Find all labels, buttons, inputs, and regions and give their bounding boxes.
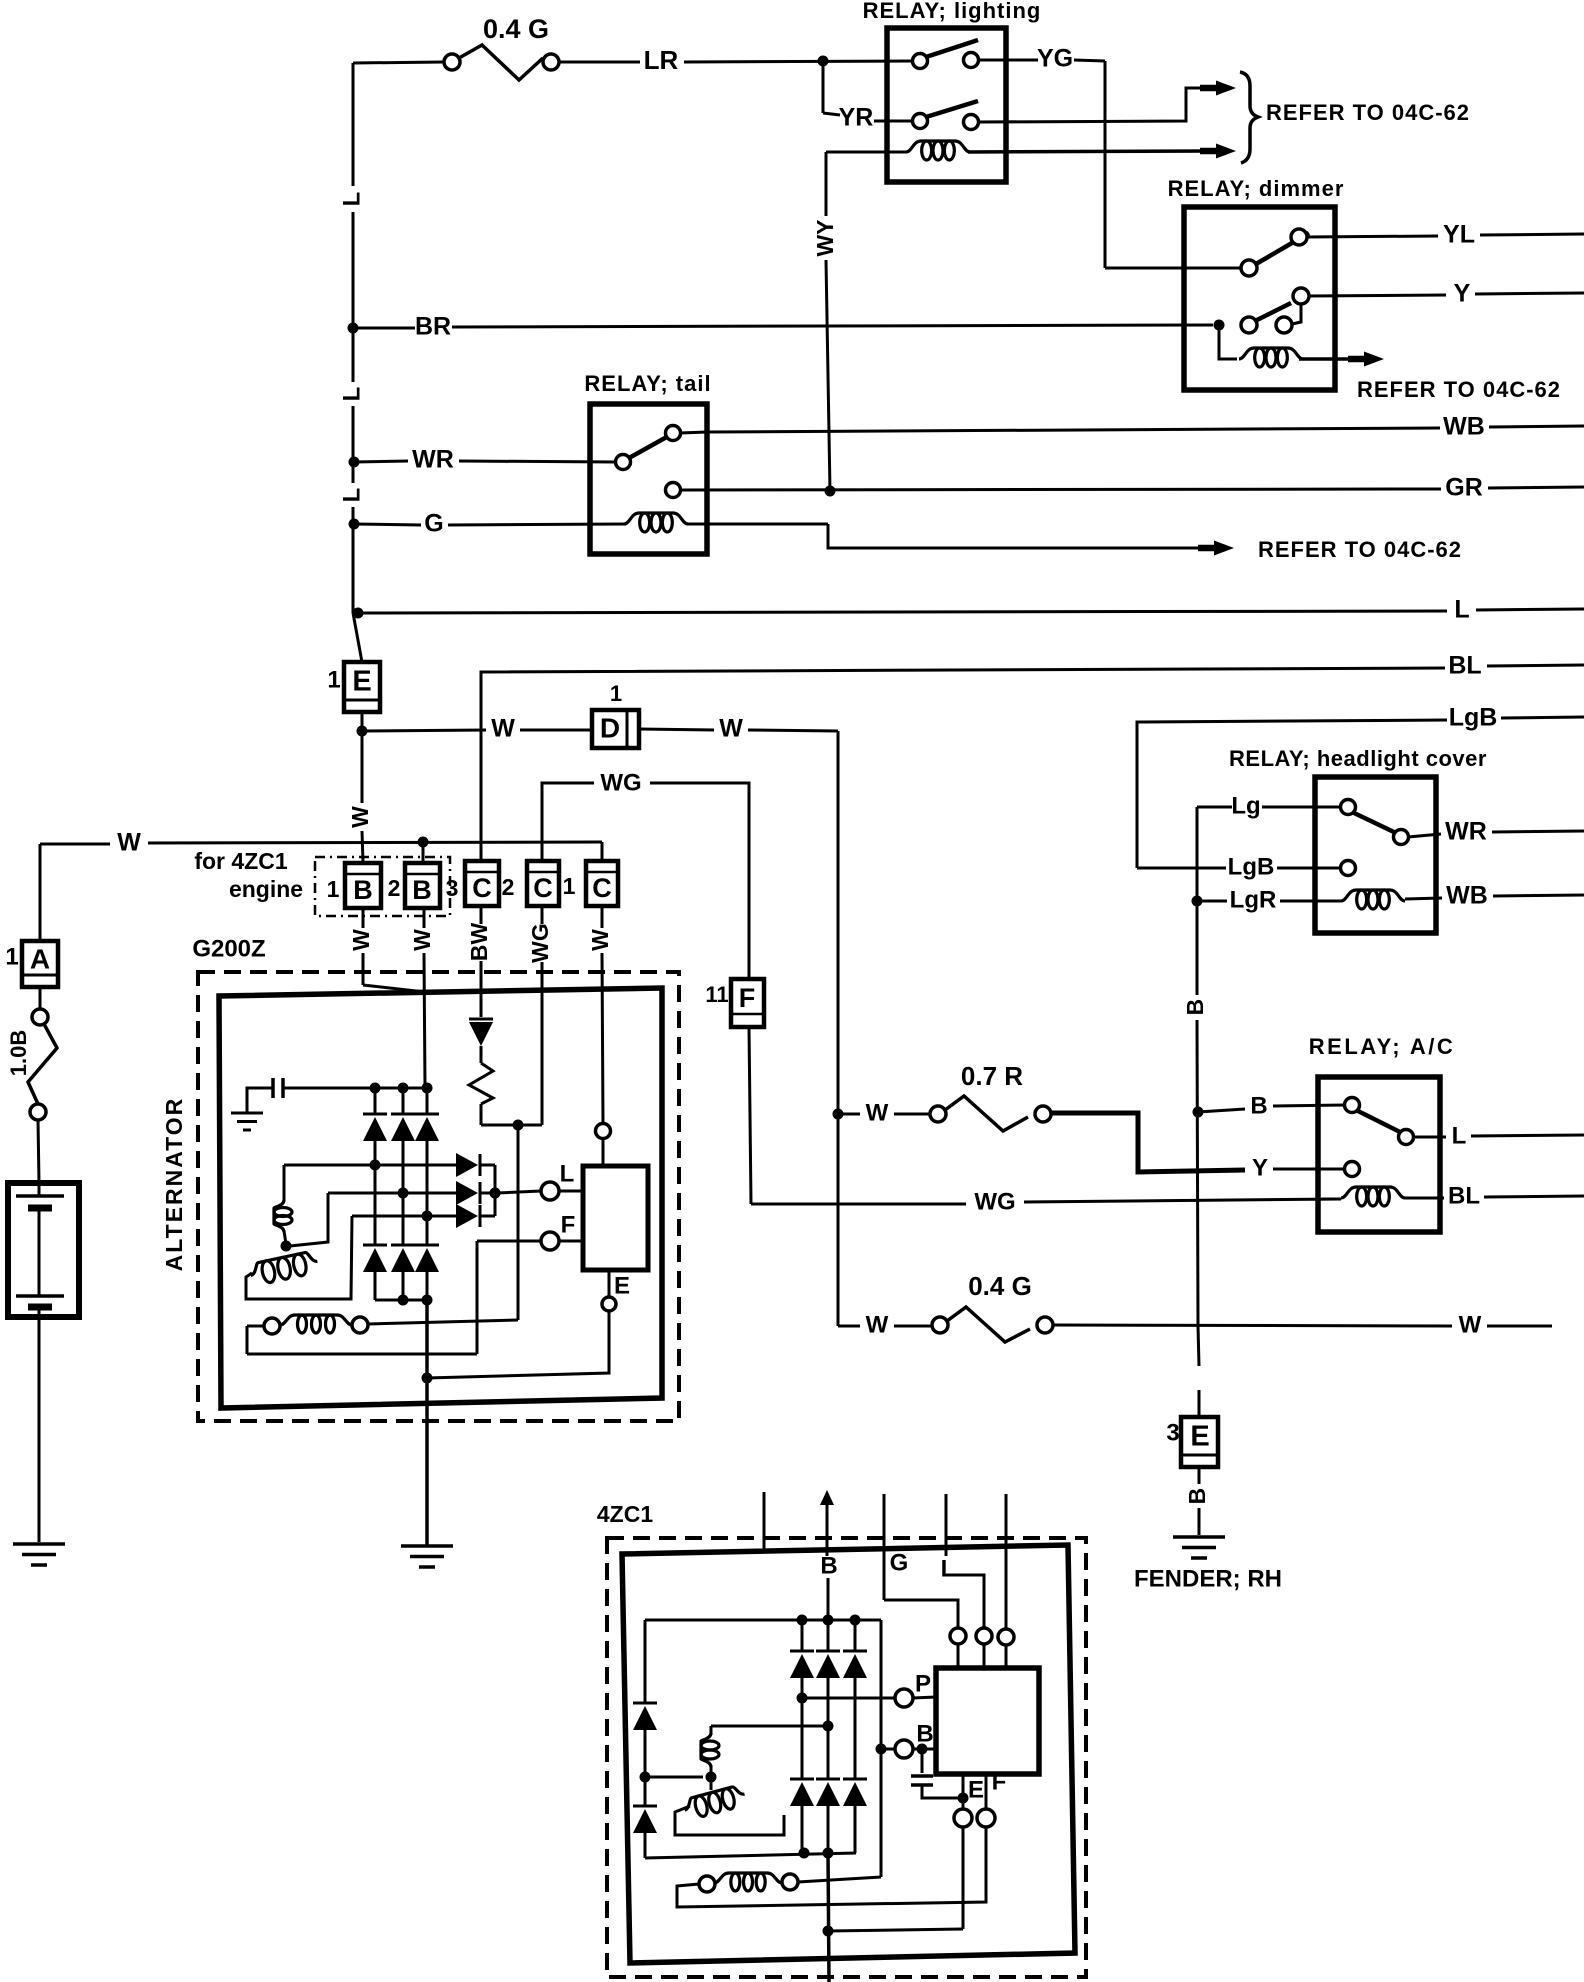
fuse D1 — [592, 710, 639, 748]
svg-text:2: 2 — [502, 874, 515, 900]
svg-text:B: B — [820, 1552, 837, 1579]
relay lighting title — [863, 0, 1042, 23]
node bottom rail 2 — [398, 1295, 433, 1306]
svg-text:F: F — [992, 1768, 1007, 1795]
relay A/C box — [1318, 1077, 1440, 1232]
svg-text:0.4 G: 0.4 G — [483, 14, 549, 44]
svg-text:RELAY; headlight cover: RELAY; headlight cover — [1229, 746, 1487, 771]
wire junction down — [517, 1125, 520, 1320]
svg-text:FENDER; RH: FENDER; RH — [1134, 1565, 1282, 1592]
wire YG — [978, 45, 1105, 268]
wire BL long — [481, 652, 1584, 861]
label 1 (fuse A) — [5, 943, 18, 970]
rotor loop (4ZC1) — [675, 1806, 784, 1835]
label REFER TO 04C-62 (dimmer) — [1357, 377, 1561, 402]
svg-text:W: W — [719, 715, 743, 743]
rectifier column 2 — [402, 1088, 405, 1300]
label 1 (fuse E) — [327, 666, 340, 693]
wire Lg — [1197, 792, 1341, 819]
rail right down (4ZC1) — [880, 1620, 883, 1877]
wire LgB long — [1137, 704, 1584, 868]
svg-text:WR: WR — [1445, 818, 1487, 846]
node GR-WY junction — [825, 486, 836, 497]
terminal E (G200Z) — [427, 1270, 630, 1378]
svg-text:LgB: LgB — [1449, 704, 1498, 732]
svg-text:BL: BL — [1448, 652, 1481, 680]
node rail 3 — [422, 1083, 433, 1094]
battery box — [8, 1183, 79, 1317]
wire label BW — [466, 923, 492, 962]
svg-text:F: F — [739, 983, 756, 1013]
wire W rail down to fuse A — [39, 844, 42, 941]
alternator center ground wire — [375, 1300, 427, 1545]
wires circles to regulator — [958, 1644, 1006, 1668]
wire label W (B1 down) — [348, 929, 374, 951]
label L (4ZC1) — [941, 1555, 956, 1582]
svg-text:E: E — [968, 1776, 984, 1803]
fuse E3 — [1181, 1417, 1218, 1467]
relay A/C switch — [1345, 1098, 1414, 1145]
wire G (4ZC1) — [884, 1494, 958, 1628]
wire below fuse E — [361, 712, 364, 731]
svg-text:WR: WR — [412, 446, 454, 474]
svg-text:L: L — [338, 488, 365, 503]
wire W (0.4G lower) — [838, 1311, 932, 1338]
wire YR — [823, 61, 913, 132]
diode bottom 3 — [415, 1245, 439, 1272]
phase row 3 — [352, 1211, 456, 1222]
connector B1 — [345, 863, 381, 908]
svg-text:L: L — [941, 1555, 956, 1582]
wire L long — [358, 596, 1584, 624]
rotor coil vertical (4ZC1) — [701, 1726, 719, 1777]
svg-text:Y: Y — [1252, 1154, 1268, 1181]
battery cell bottom — [16, 1296, 64, 1307]
diode right 2 — [456, 1181, 480, 1205]
svg-text:W: W — [117, 829, 141, 857]
terminal circle (Cc) — [596, 1124, 611, 1139]
svg-text:REFER TO 04C-62: REFER TO 04C-62 — [1357, 377, 1561, 402]
diode resistor branch — [469, 1019, 518, 1125]
fusible link 0.4 G (lower) — [932, 1307, 1053, 1342]
node W junction (0.7R) — [833, 1109, 844, 1120]
diode bottom 2 — [391, 1245, 415, 1272]
brace refer top — [1240, 72, 1258, 163]
connector C1b — [527, 861, 559, 906]
label 1 (B1) — [327, 876, 340, 902]
label 4ZC1 — [597, 1501, 653, 1527]
stator coil (4ZC1) — [699, 1873, 881, 1892]
node E junction (G200Z) — [422, 1373, 433, 1384]
wire E to B1 connector — [362, 731, 363, 863]
svg-text:C: C — [533, 873, 553, 903]
label REFER TO 04C-62 (tail) — [1258, 537, 1462, 562]
svg-text:L: L — [1452, 1122, 1467, 1149]
svg-text:BR: BR — [415, 313, 451, 341]
svg-text:GR: GR — [1445, 474, 1483, 502]
capacitor (4ZC1) — [911, 1749, 969, 1804]
svg-text:1: 1 — [327, 876, 340, 902]
svg-text:RELAY; lighting: RELAY; lighting — [863, 0, 1042, 23]
svg-text:1: 1 — [610, 681, 622, 706]
rotor wire lower — [246, 1216, 352, 1299]
svg-text:1: 1 — [563, 873, 576, 899]
svg-text:11: 11 — [705, 982, 728, 1007]
alternator G200Z dashed box — [198, 972, 679, 1421]
label 11 (connector F) — [705, 982, 728, 1007]
node B junction (A/C) — [1193, 1107, 1204, 1118]
wire label WG (lead) — [527, 923, 553, 963]
wire Ca lead down — [480, 906, 483, 1017]
dashed box 4ZC1 connectors — [315, 857, 450, 916]
relay headlight switch — [1341, 800, 1409, 845]
relay headlight contact LgB — [1341, 861, 1356, 876]
node rail 2 — [398, 1083, 409, 1094]
wire label W (B2 down) — [409, 929, 435, 951]
wire Y thick — [1051, 1113, 1345, 1181]
svg-text:3: 3 — [446, 875, 459, 901]
relay dimmer coil — [1219, 325, 1384, 367]
wire W vertical to 0.4G — [837, 1114, 840, 1326]
wire GR — [680, 474, 1584, 502]
ground battery — [13, 1544, 65, 1565]
svg-text:YL: YL — [1443, 221, 1475, 249]
node BR-dimmer junction — [1214, 320, 1225, 331]
svg-text:LR: LR — [644, 45, 679, 75]
svg-text:B: B — [353, 875, 373, 905]
wire B to A/C — [1198, 1092, 1345, 1119]
wire B2 to W rail — [422, 842, 425, 863]
wire W vertical right — [837, 731, 840, 1114]
label ALTERNATOR — [161, 1097, 187, 1272]
F wire (4ZC1) — [677, 1768, 1006, 1907]
svg-text:B: B — [1184, 1488, 1210, 1505]
node BR junction — [348, 323, 359, 334]
diode right 3 — [456, 1204, 480, 1228]
svg-text:REFER TO 04C-62: REFER TO 04C-62 — [1266, 100, 1470, 125]
wire 4th stub (4ZC1) — [1005, 1494, 1008, 1629]
alternator 4ZC1 dashed box — [607, 1538, 1086, 1977]
wire B2 lead down — [424, 908, 425, 1088]
svg-text:W: W — [409, 929, 435, 951]
relay lighting switch 2 — [913, 101, 979, 130]
wire link to battery — [38, 1120, 39, 1183]
wire label B (lower) — [1184, 1488, 1210, 1505]
wire G — [354, 510, 626, 538]
rectifier column 1 — [374, 1088, 377, 1300]
rotor coil horizontal (4ZC1) — [682, 1777, 747, 1821]
wire LgR — [1197, 886, 1341, 913]
node LgR junction — [1192, 896, 1203, 907]
label 0.4 G (top) — [483, 14, 549, 44]
label 1 (C) — [563, 873, 576, 899]
label G (4ZC1) — [890, 1549, 909, 1576]
svg-text:1.0B: 1.0B — [6, 1030, 31, 1076]
label REFER TO 04C-62 (top) — [1266, 100, 1470, 125]
wire label L (lower) — [338, 488, 365, 503]
rotor coil vertical (G200Z) — [274, 1165, 292, 1244]
svg-text:W: W — [866, 1311, 889, 1338]
wire fuse A to link — [39, 987, 42, 1009]
relay tail coil — [624, 513, 1234, 556]
phase line (4ZC1) — [711, 1721, 834, 1732]
diodes bottom (4ZC1) — [790, 1779, 867, 1806]
relay tail title — [584, 371, 711, 396]
center ground wire (4ZC1) — [823, 1853, 964, 1982]
connector B2 — [405, 863, 440, 908]
rotor coil horizontal (G200Z) — [249, 1193, 328, 1286]
svg-text:engine: engine — [229, 876, 303, 902]
svg-text:F: F — [561, 1211, 576, 1238]
svg-text:for 4ZC1: for 4ZC1 — [194, 848, 288, 874]
svg-text:ALTERNATOR: ALTERNATOR — [161, 1097, 187, 1272]
diode top 1 — [363, 1114, 387, 1141]
diodes top (4ZC1) — [790, 1651, 867, 1678]
relay dimmer switch 2 — [1241, 288, 1309, 333]
svg-text:B: B — [412, 875, 432, 905]
wire YL — [1307, 221, 1584, 249]
diode output bus — [481, 1165, 501, 1216]
svg-text:B: B — [1250, 1092, 1267, 1119]
terminal F (G200Z) — [477, 1211, 583, 1354]
svg-text:WY: WY — [812, 219, 838, 256]
E wire (4ZC1) — [954, 1774, 984, 1929]
relay lighting box — [887, 28, 1006, 182]
wire stub into 4ZC1 — [763, 1492, 766, 1551]
wire label B (upper) — [1182, 999, 1208, 1016]
wire B vertical (fender ground) — [1197, 901, 1199, 1417]
alternator 4ZC1 solid box — [622, 1545, 1075, 1963]
terminal L (G200Z) — [490, 1160, 584, 1200]
connector Cc — [586, 861, 618, 906]
label 2 (B2) — [388, 875, 401, 901]
wire W right (lower) — [1053, 1311, 1552, 1338]
wire WY vertical — [826, 152, 830, 491]
wire bend to fusible link — [353, 62, 444, 63]
diode bottom 1 — [363, 1245, 387, 1272]
wire Cb into junction — [518, 1124, 542, 1127]
relay headlight cover title — [1229, 746, 1487, 771]
node bottom left 1 — [799, 1848, 810, 1859]
wire YG into dimmer — [1105, 267, 1241, 270]
label 2 (C) — [502, 874, 515, 900]
relay A/C title — [1309, 1034, 1455, 1059]
left branch (4ZC1) — [633, 1620, 856, 1858]
terminal circle L — [976, 1628, 992, 1644]
svg-text:W: W — [1459, 1311, 1482, 1338]
svg-text:W: W — [348, 929, 374, 951]
rectifier columns (4ZC1) — [802, 1620, 855, 1853]
relay dimmer box — [1184, 207, 1335, 390]
svg-text:2: 2 — [388, 875, 401, 901]
label 0.7 R — [961, 1061, 1023, 1091]
diode right 1 — [456, 1153, 480, 1177]
diode top 2 — [391, 1114, 415, 1141]
wire L (4ZC1) — [946, 1494, 984, 1627]
rotor link (4ZC1) — [645, 1772, 717, 1783]
battery cell top — [16, 1186, 64, 1208]
wire WR — [354, 446, 616, 474]
svg-text:W: W — [347, 806, 373, 828]
terminal circle G — [950, 1628, 966, 1644]
wire W to fuse D — [362, 715, 592, 743]
svg-text:BW: BW — [466, 923, 492, 962]
wire W from fuse D — [639, 715, 838, 743]
svg-text:YR: YR — [839, 104, 874, 132]
wire F to WG low — [749, 1027, 1341, 1215]
phase row 2 — [328, 1188, 456, 1199]
svg-text:0.7 R: 0.7 R — [961, 1061, 1023, 1091]
fusible link 0.7 R — [930, 1096, 1051, 1131]
node W-B2 junction — [418, 837, 429, 848]
svg-text:WG: WG — [974, 1188, 1015, 1215]
node rail 1 — [370, 1083, 381, 1094]
diode top 3 — [415, 1114, 439, 1141]
svg-text:YG: YG — [1037, 45, 1073, 73]
wire L (A/C) — [1413, 1122, 1584, 1149]
node LR junction — [818, 56, 829, 67]
wire main vertical L (battery feed) — [353, 63, 362, 662]
wire BR — [353, 313, 1213, 341]
svg-text:A: A — [30, 943, 50, 974]
label G200Z — [192, 935, 265, 962]
relay lighting switch 1 — [913, 40, 979, 69]
connector C2a — [465, 861, 499, 906]
wire label L (middle) — [338, 387, 365, 402]
svg-text:L: L — [338, 192, 365, 207]
svg-text:C: C — [472, 873, 492, 903]
node WR junction — [349, 457, 360, 468]
svg-text:WB: WB — [1443, 413, 1485, 441]
rectifier rail (4ZC1) — [645, 1615, 881, 1626]
svg-text:WG: WG — [600, 769, 641, 796]
svg-text:E: E — [614, 1272, 630, 1299]
label 0.4 G (lower) — [968, 1271, 1032, 1301]
node G junction — [349, 519, 360, 530]
node resistor junction — [513, 1120, 524, 1131]
wire W (0.7R) — [838, 1099, 930, 1126]
svg-text:RELAY; dimmer: RELAY; dimmer — [1168, 176, 1345, 201]
svg-text:E: E — [352, 666, 371, 698]
fusible link 0.4 G (top) — [444, 45, 559, 80]
relay headlight coil — [1341, 882, 1584, 910]
label B (4ZC1) — [820, 1552, 837, 1579]
ground capacitor — [231, 1113, 263, 1130]
svg-text:B: B — [916, 1720, 933, 1747]
label 1 (fuse D) — [610, 681, 622, 706]
relay A/C contact Y — [1345, 1162, 1360, 1177]
wire label W (B1 lead) — [347, 806, 373, 828]
battery cell link — [38, 1208, 41, 1296]
wire LR — [559, 45, 913, 75]
node W junction below E — [357, 726, 368, 737]
relay A/C coil — [1322, 1182, 1584, 1209]
label 3 (fuse E3) — [1166, 1419, 1179, 1446]
relay lighting coil — [826, 141, 1236, 160]
fusible link 1.0B — [28, 1009, 57, 1120]
svg-text:E: E — [1190, 1421, 1209, 1453]
svg-text:L: L — [1454, 596, 1469, 624]
alternator G200Z solid box — [219, 988, 662, 1408]
svg-text:4ZC1: 4ZC1 — [597, 1501, 653, 1527]
relay headlight cover box — [1315, 777, 1436, 933]
svg-text:W: W — [491, 715, 515, 743]
wire Cb lead down — [541, 906, 544, 1125]
wire W rail — [40, 829, 602, 861]
svg-text:Lg: Lg — [1231, 792, 1260, 819]
svg-text:D: D — [600, 712, 620, 743]
wire battery to ground — [38, 1307, 41, 1542]
capacitor (G200Z) — [247, 1078, 373, 1112]
relay dimmer switch 1 — [1241, 229, 1309, 276]
svg-text:LgR: LgR — [1230, 886, 1277, 913]
svg-text:1: 1 — [327, 666, 340, 693]
wire WR (headlight) — [1408, 818, 1584, 846]
svg-text:RELAY; A/C: RELAY; A/C — [1309, 1034, 1455, 1059]
wire WB — [680, 413, 1584, 441]
node L-line junction — [353, 608, 364, 619]
svg-text:W: W — [866, 1099, 889, 1126]
fuse A — [22, 941, 58, 987]
relay dimmer title — [1168, 176, 1345, 201]
relay tail switch — [616, 426, 682, 470]
svg-text:P: P — [915, 1670, 931, 1697]
terminal circle 4th — [998, 1629, 1014, 1645]
wire B (4ZC1) — [820, 1490, 834, 1620]
wire WG to F connector — [542, 769, 749, 979]
svg-text:WG: WG — [527, 923, 553, 963]
svg-text:0.4 G: 0.4 G — [968, 1271, 1032, 1301]
svg-text:C: C — [592, 873, 612, 903]
svg-text:B: B — [1182, 999, 1208, 1016]
relay tail contact 2 — [666, 483, 681, 498]
wire B1 lead down — [363, 908, 425, 992]
wire Cc lead down — [602, 906, 603, 1168]
svg-text:G: G — [890, 1549, 909, 1576]
phase row 1 — [284, 1160, 456, 1171]
wire switch2 to refer arrow — [978, 81, 1236, 123]
svg-text:W: W — [587, 929, 613, 951]
svg-text:3: 3 — [1166, 1419, 1179, 1446]
ground fender RH — [1173, 1537, 1225, 1558]
label 3 (B2) — [446, 875, 459, 901]
wire Y — [1308, 280, 1584, 308]
connector F11 — [731, 979, 764, 1027]
node bottom left 2 — [823, 1848, 834, 1859]
svg-text:G: G — [424, 510, 443, 538]
stator coil (G200Z) — [247, 1315, 518, 1354]
P row (4ZC1) — [797, 1670, 937, 1707]
svg-text:Y: Y — [1454, 280, 1471, 308]
label for 4ZC1 engine — [194, 848, 303, 902]
svg-text:RELAY; tail: RELAY; tail — [584, 371, 711, 396]
fuse E1 — [344, 662, 380, 712]
svg-text:LgB: LgB — [1228, 853, 1275, 880]
wire label L (upper) — [338, 192, 365, 207]
wire LgB pin — [1137, 853, 1341, 880]
label FENDER; RH — [1134, 1565, 1282, 1592]
svg-text:G200Z: G200Z — [192, 935, 265, 962]
svg-text:WB: WB — [1446, 882, 1488, 910]
label 1.0B — [6, 1030, 31, 1076]
B row (4ZC1) — [876, 1720, 937, 1758]
wire label W (Cc down) — [587, 929, 613, 951]
svg-text:L: L — [338, 387, 365, 402]
rectifier top rail — [283, 1087, 427, 1090]
regulator box (4ZC1) — [936, 1668, 1039, 1774]
svg-text:REFER TO 04C-62: REFER TO 04C-62 — [1258, 537, 1462, 562]
wire below fuse E3 — [1198, 1467, 1201, 1535]
